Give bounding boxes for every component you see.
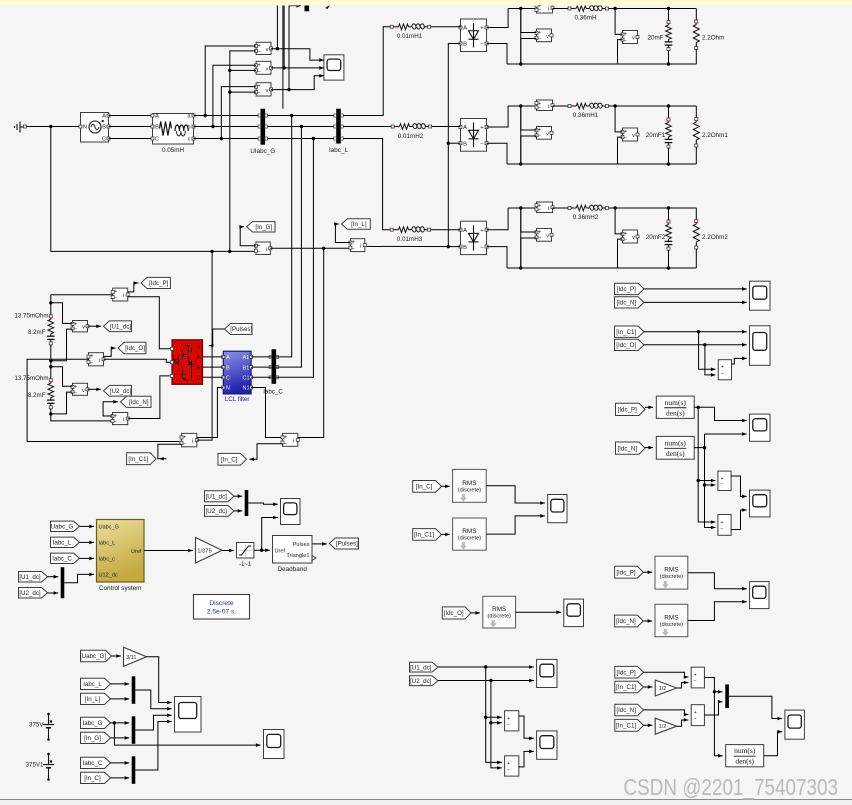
sum block In_C1+Idc_O xyxy=(718,360,731,380)
wire Idc_O to scope xyxy=(644,344,747,346)
wire Idc_P to inverter + xyxy=(128,297,170,349)
svg-text:[Idc_N]: [Idc_N] xyxy=(616,300,636,307)
svg-text:[Idc_O]: [Idc_O] xyxy=(444,610,464,617)
DC voltage source 375V1 xyxy=(47,753,50,756)
from tag Uabc_G xyxy=(51,521,80,531)
wire U2_dc to scope in2 xyxy=(438,680,534,682)
node Iabc_G branch xyxy=(113,721,116,724)
wire V3- to neutral rail xyxy=(230,91,256,93)
from tag [U2_dc] lower-left xyxy=(19,588,48,599)
resistor branch 2.2Ohm1 xyxy=(695,106,697,118)
svg-text:[In_C1]: [In_C1] xyxy=(128,456,148,463)
svg-text:0.01mH1: 0.01mH1 xyxy=(397,33,423,40)
wire V1 out to scope in1 xyxy=(271,49,324,60)
svg-text:2.5e-07 s.: 2.5e-07 s. xyxy=(207,609,236,616)
svg-text:[Pulses]: [Pulses] xyxy=(230,326,252,333)
svg-text:[In_G]: [In_G] xyxy=(255,224,272,231)
svg-text:B: B xyxy=(463,42,467,48)
wire Iabc_G to mux xyxy=(111,722,130,724)
node V1 out branch xyxy=(276,47,279,50)
svg-text:[In_L]: [In_L] xyxy=(351,221,367,228)
svg-text:Uabc_G: Uabc_G xyxy=(51,524,74,531)
wire tf2 tap to sum1 in2 xyxy=(705,484,716,486)
wire arrow into In_C1 tag xyxy=(159,458,166,460)
svg-text:(discrete): (discrete) xyxy=(488,614,511,620)
svg-text:[Idc_N]: [Idc_N] xyxy=(617,445,637,452)
svg-text:g: g xyxy=(197,344,200,350)
svg-text:20mF1: 20mF1 xyxy=(646,132,666,139)
wire V2- to neutral rail xyxy=(230,69,256,71)
wire U1_dc to mux xyxy=(48,576,59,578)
current measurement Idc_P xyxy=(113,288,128,301)
goto tag [In_C] mirrored xyxy=(218,453,247,465)
wire bottom rail 2 xyxy=(507,163,696,165)
wire gain1 to sum in2 xyxy=(677,683,689,689)
rectifier bridge 3 xyxy=(461,221,487,254)
svg-text:Control system: Control system xyxy=(99,585,142,592)
wire In_C1 to rms2 xyxy=(442,533,450,535)
voltage measurement output 3 xyxy=(623,230,638,243)
svg-text:C1: C1 xyxy=(242,376,249,382)
node top rail cap 3 xyxy=(667,206,670,209)
node tap C xyxy=(220,137,223,140)
scope tf outputs xyxy=(750,414,771,441)
svg-text:B: B xyxy=(463,245,467,251)
wire V1 signal up offscreen xyxy=(276,1,278,49)
node bottom rail cap 3 xyxy=(667,266,670,269)
node In_C1 neutral join xyxy=(210,250,213,253)
transfer function num/den 1 xyxy=(656,396,694,418)
svg-text:[Idc_P]: [Idc_P] xyxy=(149,280,169,287)
node top rail tap vmeas 2 xyxy=(613,104,616,107)
svg-text:i: i xyxy=(548,104,549,110)
svg-text:[U1_dc]: [U1_dc] xyxy=(410,664,432,671)
svg-text:A: A xyxy=(463,125,467,131)
wire Iabc_G branch to scope5 xyxy=(114,723,260,745)
svg-text:(discrete): (discrete) xyxy=(660,622,683,628)
IGBT inverter block (red) xyxy=(172,340,203,385)
wire Idc_O meas to goto xyxy=(104,348,116,356)
sum block tf row lower xyxy=(718,515,731,536)
node branch to tf3 xyxy=(713,690,716,693)
gain 1/2 upper xyxy=(655,680,677,696)
wire In_L meas to goto xyxy=(335,224,350,243)
wire top rail 3 to current meas xyxy=(508,207,536,209)
wire tf1 tap to sum1 in1 xyxy=(698,480,715,482)
wire In_C to rms1 xyxy=(442,485,450,487)
svg-text:[Uabc_G]: [Uabc_G] xyxy=(80,653,106,660)
svg-text:A1: A1 xyxy=(243,355,250,361)
wire Idc_P to tf1 xyxy=(645,406,653,408)
svg-text:N1: N1 xyxy=(242,386,249,392)
voltage measurement output 2 xyxy=(623,128,638,141)
from tag [U2_dc] bottom xyxy=(410,676,439,686)
rectifier bridge 2 xyxy=(461,119,487,152)
svg-text:A: A xyxy=(463,228,467,234)
scope rms O xyxy=(564,599,584,627)
svg-text:0.01mH3: 0.01mH3 xyxy=(397,236,423,243)
svg-text:B: B xyxy=(155,125,159,131)
voltage measurement DC link 1 xyxy=(537,29,552,42)
wire phase C from branch to RL3 xyxy=(194,139,392,230)
wire branch to scope U12 xyxy=(262,518,278,551)
node neutral rail joins xyxy=(228,250,231,253)
node bottom rail cap 2 xyxy=(667,162,670,165)
wire source A to branch xyxy=(109,115,153,117)
voltage measurement V3 (phase C) xyxy=(256,83,271,96)
svg-text:0.01mH2: 0.01mH2 xyxy=(398,133,424,140)
wire Idc_P meas to goto xyxy=(128,283,139,292)
svg-text:B: B xyxy=(463,141,467,147)
scope U1U2 bottom xyxy=(537,659,557,687)
0.05mH interior zigzag xyxy=(160,122,172,136)
node DC+ 3 xyxy=(519,206,522,209)
wire mux to U12_dc input xyxy=(64,574,94,582)
svg-text:[Idc_O]: [Idc_O] xyxy=(616,342,636,349)
from tag [Idc_N] rms xyxy=(615,615,644,627)
wire Iabc_C to control xyxy=(80,557,94,559)
wire tf1 branch down to sum2 in1 xyxy=(698,407,715,522)
svg-text:A: A xyxy=(155,114,159,120)
from tag [Idc_N] row1 xyxy=(615,297,645,308)
mux U12 scope xyxy=(245,490,249,516)
wire mux2 to scope xyxy=(248,503,277,504)
goto tag [In_C1] mirrored xyxy=(127,453,157,465)
svg-text:v: v xyxy=(266,47,269,53)
RC branch upper 13.75mOhm + 8.2mF xyxy=(50,303,52,316)
wire U2_dc to mux xyxy=(48,592,59,594)
wire rectifier2 + to top rail xyxy=(487,106,509,127)
svg-text:B: B xyxy=(226,365,230,371)
wire RL3 to top-right rail xyxy=(609,207,697,209)
wire bottom rail 1 xyxy=(507,63,696,65)
svg-text:[In_L]: [In_L] xyxy=(85,696,101,703)
series RL branch 0.36mH1 xyxy=(568,105,571,108)
wire top rail 2 to current meas xyxy=(508,105,536,107)
wire In_L meas to rectifier3 B xyxy=(363,245,460,247)
series RL branch 0.01mH2 xyxy=(391,125,394,128)
voltage measurement DC link 3 xyxy=(537,229,552,242)
current measurement Idc_O xyxy=(89,353,104,366)
svg-text:[Idc_P]: [Idc_P] xyxy=(617,286,637,293)
svg-text:−: − xyxy=(507,722,510,728)
bus bar Iabc_C xyxy=(272,349,277,384)
wire inverter B to LCL B xyxy=(203,366,224,368)
node DC- 2 xyxy=(519,162,522,165)
svg-text:v: v xyxy=(82,388,85,394)
wire imeas3 to RL xyxy=(553,207,569,209)
svg-text:v: v xyxy=(632,235,635,241)
sum block br upper xyxy=(691,667,704,688)
node U1 sum tap xyxy=(484,716,487,719)
svg-text:N: N xyxy=(83,125,87,131)
svg-text:Uref: Uref xyxy=(275,549,286,555)
wire LCL A1 to bus xyxy=(251,356,271,358)
from tag Iabc_C bottom xyxy=(81,757,111,768)
resistor branch 2.2Ohm2 xyxy=(695,208,697,220)
RMS discrete block 1 xyxy=(453,469,487,502)
wire DC link vertical 2 xyxy=(520,106,522,164)
series RL branch 0.36mH2 xyxy=(568,207,571,210)
svg-text:Discrete: Discrete xyxy=(209,600,234,607)
wire rms5 to scope in2 xyxy=(688,602,747,621)
saturation block xyxy=(237,543,254,559)
wire Idc_P to rms4 xyxy=(643,571,652,573)
svg-text:C: C xyxy=(155,137,159,143)
svg-text:-1~1: -1~1 xyxy=(239,562,252,568)
wire branch to sum in1 xyxy=(699,332,716,370)
transfer function num/den 3 xyxy=(726,745,764,767)
wire U2_dc to mux2 xyxy=(234,510,242,512)
svg-text:[In_G]: [In_G] xyxy=(84,735,101,742)
from tag [Idc_O] rms xyxy=(442,607,471,619)
svg-text:[In_C]: [In_C] xyxy=(221,456,238,463)
svg-text:[Idc_P]: [Idc_P] xyxy=(616,569,636,576)
node V3 out branch xyxy=(287,88,290,91)
wire bus signal up offscreen xyxy=(282,1,284,109)
voltage measurement U1_dc xyxy=(73,321,88,332)
wire sum to scope in3 xyxy=(732,358,747,364)
svg-text:[Idc_O]: [Idc_O] xyxy=(125,345,145,352)
wire tf2 up xyxy=(694,434,704,448)
wire rms4 to scope in1 xyxy=(688,573,747,589)
ground symbol xyxy=(15,122,24,133)
voltage measurement V2 (phase B) xyxy=(256,61,271,74)
current measurement In_C xyxy=(283,433,298,446)
svg-text:[U2_dc]: [U2_dc] xyxy=(19,590,41,597)
svg-text:2.2Ohm2: 2.2Ohm2 xyxy=(702,234,728,241)
series RC branch 20mF1 xyxy=(668,106,670,119)
RMS discrete block 4 xyxy=(655,556,688,589)
svg-text:Iabc_C: Iabc_C xyxy=(83,760,103,767)
svg-text:−: − xyxy=(720,482,723,488)
current measurement In_C1 xyxy=(182,433,197,446)
wire bus C up to phase C xyxy=(276,139,313,378)
wire mux to scope4 in4 xyxy=(135,722,171,771)
svg-text:2.2Ohm: 2.2Ohm xyxy=(702,35,724,42)
wire U1- tap xyxy=(51,329,73,361)
node Idc_O branch xyxy=(703,343,706,346)
wire Idc_N to sum in1 xyxy=(644,710,689,715)
wire to rectifier2 B xyxy=(448,142,460,144)
three-phase source block xyxy=(81,113,109,143)
mux br xyxy=(725,684,729,708)
wire sum1 to scope in1 xyxy=(731,476,747,496)
bus bar UIabc_G xyxy=(261,109,266,145)
gain 1/375 xyxy=(196,538,223,564)
svg-text:[Idc_N]: [Idc_N] xyxy=(616,618,636,625)
0.05mH interior coil xyxy=(175,125,188,131)
wire sum lower to mux in2 xyxy=(704,702,722,715)
svg-text:[U1_dc]: [U1_dc] xyxy=(19,574,41,581)
wire imeas2 to RL xyxy=(553,105,569,107)
RMS discrete block 3 xyxy=(483,596,516,628)
svg-text:Pulses: Pulses xyxy=(293,542,310,548)
wire Idc_N to inverter - xyxy=(128,376,170,419)
svg-text:v: v xyxy=(266,66,269,72)
wire phase A from branch to corner x382.7 xyxy=(194,27,392,116)
wire Uabc_G to gain xyxy=(112,655,121,657)
wire vmeas out1 + tap xyxy=(615,9,622,35)
wire rectifier1 - to bottom rail xyxy=(487,44,508,65)
svg-text:i: i xyxy=(192,439,193,445)
wire Idc_O- long return xyxy=(27,359,179,441)
svg-text:A: A xyxy=(102,114,106,120)
svg-text:[Idc_N]: [Idc_N] xyxy=(129,399,149,406)
wire imeas1 to RL xyxy=(553,8,569,10)
wire RL1 to top-right rail xyxy=(609,8,697,10)
current measurement In_L xyxy=(350,239,364,252)
wire source C to branch xyxy=(109,138,153,140)
wire branch down to tf3 xyxy=(714,692,722,756)
wire rectifier1 + to top rail xyxy=(487,9,509,28)
node tie B xyxy=(300,125,303,128)
wire Idc_N to rms5 xyxy=(643,620,652,622)
svg-text:3/11: 3/11 xyxy=(126,655,136,661)
RMS discrete block 5 xyxy=(655,604,688,636)
wire U1+ tap xyxy=(51,303,73,324)
svg-text:Iabc_L: Iabc_L xyxy=(329,147,348,154)
wire sumU to scope in1 xyxy=(519,716,534,738)
wire rms1 to scope in1 xyxy=(486,486,545,503)
svg-text:C: C xyxy=(226,376,230,382)
wire Idc_P to scope xyxy=(644,288,747,290)
node top rail cap 1 xyxy=(667,7,670,10)
svg-text:num(s): num(s) xyxy=(734,746,756,755)
wire U2- tap xyxy=(51,392,73,414)
svg-text:Iabc_L: Iabc_L xyxy=(83,681,102,688)
from tag [In_C] rms xyxy=(413,481,442,493)
goto tag [Pulses] xyxy=(329,538,358,549)
node tf1 sum1 tap xyxy=(697,479,700,482)
svg-text:A: A xyxy=(197,355,201,361)
svg-text:i: i xyxy=(266,247,267,253)
node sat out branch xyxy=(260,549,263,552)
wire tf1 to scope in1 xyxy=(694,407,747,420)
svg-text:N: N xyxy=(226,386,230,392)
svg-text:Uabc_G: Uabc_G xyxy=(99,525,120,531)
three-phase series RLC branch 0.05mH xyxy=(153,114,194,145)
goto tag [In_L] xyxy=(341,219,370,229)
svg-text:[In_C]: [In_C] xyxy=(84,775,101,782)
svg-text:Iabc_L: Iabc_L xyxy=(53,540,72,547)
from tag [Idc_P] rms xyxy=(615,566,644,578)
wire bus A up to phase A xyxy=(276,116,292,357)
wire rectifier2 - to bottom rail xyxy=(487,143,508,164)
node U2 branch xyxy=(489,679,492,682)
wire Pulses out to goto xyxy=(312,543,327,545)
scope Iabc_G single xyxy=(264,730,285,759)
svg-text:A: A xyxy=(226,355,230,361)
svg-text:8.2mF: 8.2mF xyxy=(28,329,46,336)
svg-text:8.2mF: 8.2mF xyxy=(28,392,46,399)
svg-text:0.36mH: 0.36mH xyxy=(574,15,597,22)
wire In_G to mux xyxy=(111,737,130,739)
wire V3+ tap phase C xyxy=(221,87,256,139)
wire top rail 1 to current meas xyxy=(508,8,536,10)
svg-text:[U2_dc]: [U2_dc] xyxy=(206,508,228,515)
wire mid link xyxy=(50,361,52,367)
wire branch to sum in2 xyxy=(705,345,716,375)
wire bottom rail 3 xyxy=(507,267,696,269)
current measurement load 3 xyxy=(537,202,553,213)
svg-text:Iabc_G: Iabc_G xyxy=(83,720,103,727)
wire LCL B1 to bus xyxy=(251,366,271,368)
wire vmeas3+ up xyxy=(521,208,537,232)
wire sum2 to scope in2 xyxy=(731,510,747,530)
svg-text:RMS: RMS xyxy=(492,606,506,613)
svg-text:13.75mOhm: 13.75mOhm xyxy=(14,375,48,382)
node DC mid tap 1 xyxy=(49,359,52,362)
gain 1/2 lower xyxy=(655,718,677,734)
svg-text:[In_C1]: [In_C1] xyxy=(616,723,636,730)
svg-text:v: v xyxy=(632,133,635,139)
svg-text:−: − xyxy=(694,716,697,722)
wire neutral down to In_G measurement xyxy=(51,127,256,252)
wire vmeas out3 + tap xyxy=(615,208,622,234)
from tag [In_C1] br1 xyxy=(615,681,644,693)
wire rectifier B bus vertical xyxy=(448,44,460,247)
svg-text:i: i xyxy=(548,6,549,12)
svg-text:[In_C]: [In_C] xyxy=(416,484,433,491)
series RC branch 20mF2 xyxy=(668,208,670,221)
node V3- join xyxy=(228,90,231,93)
wire In_C tag elbow xyxy=(249,444,282,460)
voltage measurement DC link 2 xyxy=(537,127,552,140)
wire U1_dc to scope in1 xyxy=(438,666,534,668)
wire vmeas1- down xyxy=(521,39,537,65)
svg-text:375V: 375V xyxy=(29,721,44,728)
svg-text:[Idc_N]: [Idc_N] xyxy=(616,707,636,714)
wire tf2 branch down to sum2 in2 xyxy=(705,448,716,528)
svg-text:0.05mH: 0.05mH xyxy=(162,147,185,154)
voltage measurement V1 (phase A) xyxy=(256,42,271,54)
svg-text:i: i xyxy=(293,438,294,444)
wire RL3 to rectifier3 A xyxy=(431,229,461,231)
wire Uabc_G to control xyxy=(80,525,94,527)
svg-text:i: i xyxy=(123,293,124,299)
svg-text:Iabc_C: Iabc_C xyxy=(52,556,72,563)
svg-text:den(s): den(s) xyxy=(735,757,754,766)
svg-text:RMS: RMS xyxy=(462,528,476,535)
svg-text:−: − xyxy=(721,371,724,377)
wire tf3 to scope in2 xyxy=(764,732,782,756)
svg-text:v: v xyxy=(632,36,635,42)
scope Scope_grid (3 inputs) xyxy=(324,55,344,80)
svg-text:B: B xyxy=(102,125,106,131)
Deadband subsystem block xyxy=(273,536,313,564)
wire In_G out to In_L meas xyxy=(270,247,350,249)
svg-text:den(s): den(s) xyxy=(666,408,685,417)
svg-text:num(s): num(s) xyxy=(665,438,687,447)
svg-text:[U1_dc]: [U1_dc] xyxy=(206,493,228,500)
DC voltage source 375V xyxy=(47,713,50,716)
Control system subsystem block xyxy=(97,520,145,583)
wire Idc_O to rms3 xyxy=(471,612,480,614)
partial arrowhead top xyxy=(325,5,331,10)
from tag [Idc_P] tf xyxy=(616,403,646,415)
node V2 out branch xyxy=(282,66,285,69)
scope U12dc xyxy=(281,499,301,525)
svg-text:(discrete): (discrete) xyxy=(458,536,481,542)
wire gain to saturation xyxy=(222,550,234,552)
wire vmeas3- down xyxy=(521,238,537,268)
wire V1+ tap phase A xyxy=(205,46,256,116)
series RL branch 0.01mH3 xyxy=(390,228,393,231)
mux Iabc_G group xyxy=(132,716,136,744)
bottom status strip xyxy=(0,799,852,805)
partial wire at top edge xyxy=(289,5,301,7)
